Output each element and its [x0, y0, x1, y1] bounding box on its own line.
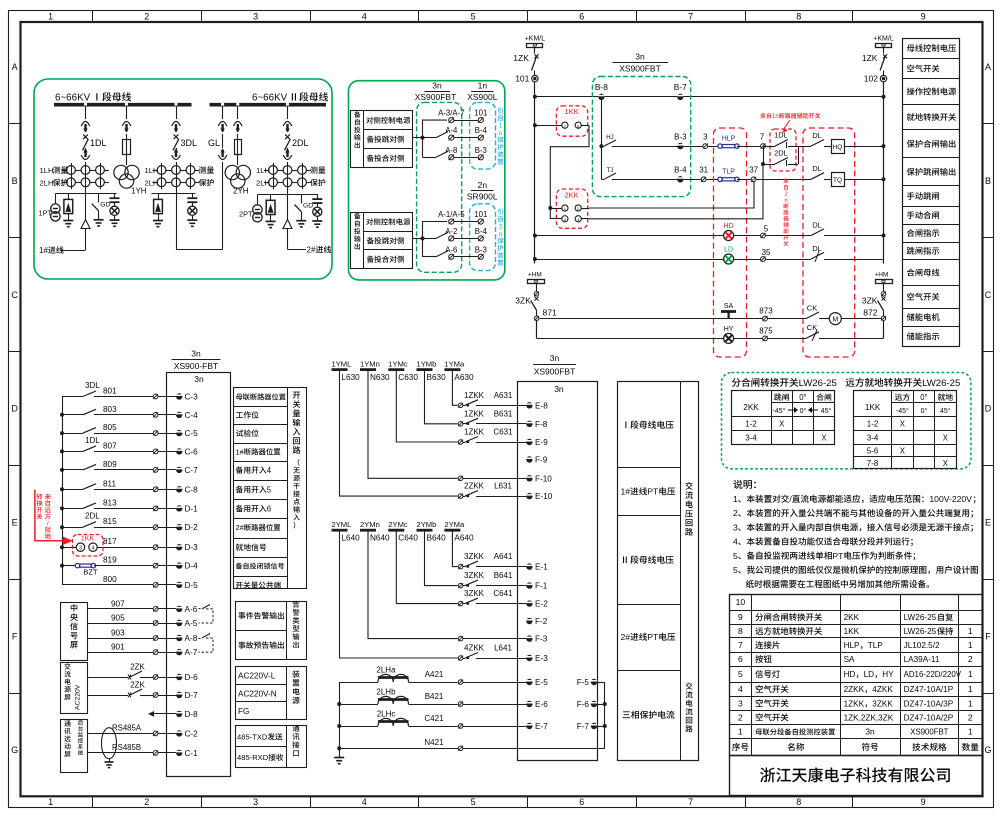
svg-text:B-7: B-7 — [674, 82, 687, 92]
svg-text:F-2: F-2 — [535, 617, 548, 626]
wire RS485A to C-2 — [87, 730, 182, 736]
PT bar 2YMn — [360, 529, 376, 532]
label 3n XS900FBT group header — [425, 91, 450, 93]
relay contact HJ and B-8 drop — [599, 97, 680, 180]
note line 2 — [733, 508, 973, 518]
terminal A-6 — [449, 254, 478, 259]
svg-text:TQ: TQ — [833, 177, 842, 184]
svg-text:M: M — [832, 317, 838, 324]
svg-text:XS900-FBT: XS900-FBT — [174, 361, 218, 371]
wire 805 to terminal C-5 — [60, 428, 182, 437]
parts list table — [729, 594, 982, 755]
svg-text:2: 2 — [738, 713, 743, 723]
svg-text:5: 5 — [267, 485, 272, 494]
PT bar 1YMb — [417, 368, 433, 371]
svg-text:XS900L: XS900L — [467, 92, 498, 102]
svg-text:1-2: 1-2 — [867, 420, 879, 429]
svg-text:1LH: 1LH — [256, 166, 270, 175]
svg-text:1#: 1# — [621, 487, 631, 497]
svg-text:0°: 0° — [921, 407, 928, 415]
wire 809 to terminal C-7 — [60, 464, 182, 473]
svg-text:0°: 0° — [800, 407, 807, 415]
current transformer 2LHa — [339, 674, 532, 685]
lamp LD row wire — [533, 257, 724, 261]
svg-text:BZT: BZT — [83, 568, 98, 577]
terminal strip 3n XS900FBT middle outline — [518, 382, 598, 761]
breaker 3DL — [173, 134, 179, 150]
svg-text:2: 2 — [733, 508, 738, 518]
svg-text:F-7: F-7 — [577, 722, 590, 731]
svg-text:2DL: 2DL — [292, 138, 309, 148]
breaker 1ZK left — [532, 47, 539, 75]
PT bar 1YMc — [388, 368, 404, 371]
contact DL HD row — [811, 229, 886, 238]
svg-text:C: C — [11, 290, 18, 300]
feeder 2YH wire — [236, 103, 239, 165]
svg-text:5: 5 — [471, 11, 476, 21]
svg-text:2: 2 — [784, 192, 787, 198]
svg-text:DZ47-10A/3P: DZ47-10A/3P — [904, 699, 954, 708]
svg-text:6: 6 — [579, 797, 584, 807]
red dashed box output contacts — [803, 128, 855, 357]
svg-text:2LH: 2LH — [145, 179, 159, 188]
svg-text:485-TXD: 485-TXD — [237, 733, 268, 742]
svg-text:8: 8 — [796, 11, 801, 21]
svg-text:AD16-22D/220V: AD16-22D/220V — [904, 670, 962, 679]
input label 备自投闭锁信号 — [236, 563, 284, 570]
capacitor and lamp feeder1 — [110, 194, 120, 227]
wire B641 row F-1 — [425, 531, 533, 589]
svg-text:3n: 3n — [865, 727, 875, 737]
svg-text:4: 4 — [362, 797, 367, 807]
svg-text:D-1: D-1 — [185, 504, 199, 513]
svg-text:CK: CK — [807, 323, 817, 332]
green dashed box XS900FBT — [592, 77, 690, 197]
legend 合闸母线 — [907, 269, 940, 277]
svg-text:0°: 0° — [920, 393, 927, 402]
svg-text:2: 2 — [144, 797, 149, 807]
relay contact TJ — [601, 173, 680, 180]
svg-text:5: 5 — [733, 551, 738, 561]
svg-text:3n: 3n — [194, 374, 204, 384]
surge triangle feeder2 — [283, 220, 292, 229]
contact DL close HQ row — [798, 140, 831, 147]
svg-text:2ZK: 2ZK — [130, 681, 145, 690]
surge triangle feeder1 — [81, 220, 90, 229]
svg-text:1ZK: 1ZK — [862, 53, 878, 63]
svg-text:903: 903 — [111, 629, 125, 638]
feeder 1DL wire — [84, 103, 87, 194]
coil HQ — [832, 140, 886, 154]
F terminals right vertical — [603, 682, 607, 748]
blue dashed terminal group 2n — [470, 204, 496, 271]
svg-text:5: 5 — [733, 565, 738, 575]
legend 储能指示 — [907, 332, 940, 340]
svg-text:E-3: E-3 — [535, 654, 548, 663]
svg-text:3n: 3n — [635, 52, 645, 62]
fuse 2YH — [235, 140, 242, 155]
bus II 6~66KV — [210, 103, 327, 107]
blue dashed terminal group 1n — [470, 102, 496, 169]
feeder 3DL wire — [174, 103, 177, 194]
svg-text:F-8: F-8 — [535, 420, 548, 429]
svg-text:5: 5 — [738, 669, 743, 679]
note from remote-local switch — [45, 494, 51, 539]
bus I 6~66KV — [54, 103, 192, 107]
svg-text:F-3: F-3 — [535, 635, 548, 644]
svg-text:1YH: 1YH — [131, 187, 147, 196]
svg-text:B630: B630 — [427, 373, 447, 382]
svg-text:2YMc: 2YMc — [388, 520, 408, 529]
terminal 101 side 1n — [478, 117, 483, 122]
svg-text:E-6: E-6 — [535, 700, 548, 709]
svg-text:GD: GD — [303, 203, 313, 210]
svg-text:1KK: 1KK — [844, 627, 860, 636]
input label 备用开入5 — [236, 485, 272, 494]
svg-text:E-1: E-1 — [535, 563, 548, 572]
title switch table 1KK — [846, 378, 961, 389]
svg-text:LW26-25: LW26-25 — [904, 613, 937, 622]
svg-text:-45°: -45° — [773, 407, 786, 415]
svg-text:C-3: C-3 — [185, 393, 199, 402]
svg-text:PT: PT — [832, 551, 844, 561]
svg-text:F-9: F-9 — [535, 456, 548, 465]
svg-text:RS485A: RS485A — [112, 724, 142, 733]
svg-text:LA39A-11: LA39A-11 — [904, 655, 940, 664]
title switch table 2KK — [732, 378, 837, 389]
svg-text:9: 9 — [921, 797, 926, 807]
aux contact 2DL — [761, 146, 799, 166]
label 1# PT voltage — [621, 487, 676, 497]
svg-text:N640: N640 — [370, 534, 390, 543]
svg-text:PT: PT — [647, 487, 659, 497]
svg-text:B641: B641 — [494, 571, 513, 580]
label bus I voltage — [625, 422, 626, 428]
svg-text:2KK: 2KK — [844, 613, 860, 622]
svg-text:A421: A421 — [425, 670, 444, 679]
legend 跳闸指示 — [907, 247, 939, 255]
svg-text:9: 9 — [921, 11, 926, 21]
wire L641 row E-3 — [340, 531, 533, 661]
svg-text:2YMn: 2YMn — [360, 520, 380, 529]
svg-text:801: 801 — [103, 387, 117, 396]
parts row 5 — [738, 669, 743, 679]
svg-text:F: F — [985, 631, 991, 641]
breaker 3ZK right — [878, 284, 886, 321]
PT bar 1YML — [332, 368, 348, 371]
motor rung wire — [537, 319, 725, 321]
svg-text:3ZKK: 3ZKK — [872, 699, 893, 708]
PT bar 2YMa — [444, 529, 460, 532]
svg-text:2KK: 2KK — [565, 191, 579, 200]
svg-text:1PT: 1PT — [39, 209, 53, 218]
svg-text:3n: 3n — [432, 81, 442, 91]
legend 保护合闸输出 — [907, 140, 956, 148]
svg-text:DZ47-10A/2P: DZ47-10A/2P — [904, 714, 954, 723]
switch table 2KK — [731, 390, 834, 444]
svg-text:5: 5 — [471, 797, 476, 807]
legend 操作控制电源 — [907, 87, 956, 95]
svg-text:B-3: B-3 — [475, 245, 487, 254]
svg-text:2: 2 — [968, 654, 973, 664]
svg-text:4: 4 — [92, 545, 95, 551]
note line 1 — [733, 494, 975, 504]
label bus II voltage — [623, 557, 627, 563]
svg-text:1DL: 1DL — [774, 131, 788, 140]
signal wire 903 to A-8 — [87, 635, 182, 641]
connector plate TLP — [718, 177, 739, 181]
AC wire 2ZK to D-6 — [87, 671, 182, 680]
primary one-line diagram box — [34, 79, 332, 279]
svg-text:7: 7 — [688, 11, 693, 21]
wire RS485B to C-1 — [87, 750, 182, 756]
wire 813 to terminal D-1 — [60, 503, 182, 512]
disconnect GD feeder1 — [92, 194, 104, 227]
svg-text:A631: A631 — [494, 391, 513, 400]
voltage circuit label table — [617, 381, 698, 760]
terminal D-8 ground — [148, 711, 182, 717]
PT bar 2YML — [332, 529, 348, 532]
svg-text:G: G — [985, 745, 992, 755]
svg-text:LW26-25: LW26-25 — [922, 378, 960, 389]
signal wire 905 to A-5 — [87, 620, 182, 626]
feeder GL wire — [221, 103, 224, 250]
svg-text:10: 10 — [736, 597, 746, 607]
terminal A-8 — [449, 155, 478, 160]
svg-text:1#: 1# — [236, 447, 245, 456]
svg-text:1: 1 — [968, 698, 973, 708]
svg-text:E-8: E-8 — [535, 401, 548, 410]
svg-text:1: 1 — [48, 797, 53, 807]
svg-text:813: 813 — [103, 498, 117, 507]
switch 1KK contacts — [533, 122, 589, 128]
svg-text:A-5: A-5 — [185, 619, 198, 628]
svg-text:1DL: 1DL — [85, 436, 100, 445]
svg-text:3n: 3n — [554, 384, 564, 394]
wire 817 to terminal D-3 — [60, 543, 182, 551]
node 101 — [532, 75, 538, 81]
wire N421 — [339, 746, 605, 751]
svg-text:E: E — [12, 518, 18, 528]
svg-text:A-8: A-8 — [445, 146, 457, 155]
table output group 2 — [351, 212, 413, 268]
svg-text:A-2: A-2 — [445, 227, 457, 236]
parts row 6 — [738, 654, 743, 664]
capacitor and lamp feeder3 — [187, 194, 197, 227]
drawout symbol lower GL — [218, 149, 227, 160]
wire C641 row E-2 — [396, 531, 532, 607]
svg-text:1-2: 1-2 — [745, 420, 757, 429]
input common bus — [62, 397, 64, 585]
svg-text:/: / — [47, 520, 49, 527]
svg-text:4: 4 — [362, 11, 367, 21]
parts row 4 — [738, 684, 743, 694]
svg-text:1YMn: 1YMn — [360, 360, 380, 369]
svg-text:1ZKK: 1ZKK — [844, 699, 865, 708]
contact wiring group 2n — [413, 222, 448, 257]
terminal B-4 side 1n — [478, 135, 483, 140]
svg-text:1: 1 — [968, 640, 973, 650]
svg-text:A-6: A-6 — [445, 245, 457, 254]
parts row 序号 — [732, 743, 748, 751]
svg-text:E: E — [985, 518, 991, 528]
svg-text:905: 905 — [111, 614, 125, 623]
note from 2n protection — [497, 209, 503, 266]
svg-text:B-3: B-3 — [674, 133, 687, 142]
terminal B-4 — [677, 176, 683, 182]
wire 2YMN row F-3 — [368, 531, 533, 642]
svg-text:HLP: HLP — [722, 136, 736, 143]
svg-text:8: 8 — [738, 626, 743, 636]
svg-text:0°: 0° — [799, 393, 806, 402]
wire to 1# incoming — [60, 194, 86, 251]
svg-text:2: 2 — [144, 11, 149, 21]
svg-text:B-8: B-8 — [595, 82, 608, 92]
feeder 3 lateral bus — [152, 193, 196, 195]
svg-text:2YH: 2YH — [233, 187, 249, 196]
svg-text:C-1: C-1 — [185, 749, 199, 758]
twisted pair ellipse — [102, 728, 117, 768]
svg-text:HD: HD — [724, 223, 734, 230]
fuse +HM left — [528, 280, 545, 284]
svg-text:A: A — [12, 62, 18, 72]
company name box — [730, 756, 983, 796]
svg-text:1: 1 — [968, 684, 973, 694]
wire B631 row F-8 — [425, 371, 533, 427]
lamp HD — [724, 231, 734, 241]
voltage transformer 1YH — [114, 165, 139, 188]
wire B-3 to HLP — [683, 144, 720, 149]
svg-text:3ZKK: 3ZKK — [464, 552, 485, 561]
svg-text:AC220V-N: AC220V-N — [238, 690, 277, 699]
svg-text:102: 102 — [864, 74, 878, 84]
svg-text:4: 4 — [738, 684, 743, 694]
svg-text:X: X — [821, 434, 827, 443]
label 3n XS900FBT ladder — [612, 62, 668, 64]
svg-text:X: X — [779, 420, 785, 429]
svg-text:A-3/A-7: A-3/A-7 — [438, 109, 464, 118]
svg-text:n: n — [499, 130, 503, 137]
svg-text:L631: L631 — [494, 482, 512, 491]
svg-text:N421: N421 — [424, 738, 444, 747]
drawout symbol lower 3DL — [172, 149, 181, 160]
svg-text:803: 803 — [103, 405, 117, 414]
svg-text:805: 805 — [103, 423, 117, 432]
company name — [760, 767, 950, 782]
svg-text:45°: 45° — [940, 407, 951, 415]
input label 1#断路器位置 — [236, 447, 281, 456]
svg-text:35: 35 — [762, 248, 771, 257]
wire SA to CK — [734, 316, 806, 321]
svg-text:GL: GL — [208, 138, 220, 148]
terminal B-3 — [677, 143, 683, 149]
wire C631 row E-9 — [396, 371, 532, 446]
svg-text:800: 800 — [103, 575, 117, 584]
wire HLP to node7 — [737, 144, 770, 149]
drawout symbol upper 1DL — [81, 122, 90, 133]
vertical label switch input circuit — [293, 392, 301, 454]
svg-text:1KK: 1KK — [865, 403, 881, 412]
drawout symbol lower 1DL — [81, 149, 90, 160]
svg-text:TLP: TLP — [722, 169, 735, 176]
switch 2KK contacts — [548, 205, 589, 222]
svg-text:F: F — [12, 631, 18, 641]
red dashed box 1DL 2DL aux — [770, 129, 796, 171]
svg-text:F-10: F-10 — [535, 474, 552, 483]
svg-text:n: n — [784, 198, 787, 204]
terminal B-3 side 1n — [478, 155, 483, 160]
breaker 1DL — [83, 134, 89, 150]
svg-text:n: n — [499, 231, 503, 238]
output contact A-6 A-5 dashed — [199, 605, 214, 624]
top rung wire — [535, 95, 886, 99]
svg-text:1: 1 — [48, 11, 53, 21]
svg-text:TLP: TLP — [868, 641, 884, 650]
svg-text:1YMc: 1YMc — [388, 360, 408, 369]
wire 811 to terminal C-8 — [60, 484, 182, 493]
terminal A-3/A-7 — [449, 117, 478, 122]
signal wire 907 to A-6 — [87, 606, 182, 612]
svg-text:1ZK,2ZK,3ZK: 1ZK,2ZK,3ZK — [844, 714, 894, 723]
svg-text:N630: N630 — [370, 373, 390, 382]
breaker 2DL — [285, 134, 291, 150]
svg-text:A-1/A-5: A-1/A-5 — [438, 210, 465, 219]
svg-text:A-4: A-4 — [445, 126, 458, 135]
switch table 1KK — [854, 390, 957, 469]
svg-text:3: 3 — [738, 698, 743, 708]
input label 试验位 — [236, 429, 259, 436]
svg-text:2DL: 2DL — [774, 149, 788, 158]
drawout symbol 2YH — [234, 122, 243, 133]
CT left common bus — [337, 682, 341, 750]
svg-text:C-2: C-2 — [185, 729, 199, 738]
aux contact 1DL — [763, 140, 798, 149]
wire L631 row E-10 — [340, 371, 533, 500]
CT 2LH feeder3 — [153, 175, 200, 189]
svg-text:31: 31 — [699, 166, 708, 175]
svg-text:100V-220V: 100V-220V — [929, 494, 972, 504]
terminal B-7 — [677, 94, 683, 100]
svg-text:X: X — [943, 459, 949, 468]
terminal B-4 side 2n — [478, 236, 483, 241]
svg-text:FG: FG — [238, 707, 249, 716]
svg-text:AC220V: AC220V — [75, 684, 82, 710]
PT 2PT — [253, 194, 262, 222]
svg-text:DL: DL — [812, 244, 822, 253]
red dashed box 1KK input — [73, 535, 104, 557]
motor M — [829, 313, 883, 325]
svg-text:X: X — [900, 420, 906, 429]
lamp HD row wire — [533, 234, 724, 238]
terminal strip 3n XS900-FBT outline — [167, 373, 231, 777]
svg-text:HLP: HLP — [844, 641, 860, 650]
wire to 2# incoming — [288, 194, 307, 249]
svg-text:2n: 2n — [478, 180, 488, 190]
svg-text:3: 3 — [79, 545, 82, 551]
note line 6 — [733, 565, 978, 575]
central signal panel box — [61, 603, 88, 661]
svg-text:3ZK: 3ZK — [862, 296, 878, 306]
left rail fuse +KM/L — [527, 44, 543, 48]
drawout symbol lower 2DL — [283, 149, 292, 160]
drawout symbol upper GL — [218, 122, 227, 133]
terminal F-9 — [526, 456, 532, 462]
legend 手动合闸 — [907, 211, 939, 219]
CT bus ground — [334, 748, 344, 763]
auto-transfer output box — [349, 81, 505, 280]
svg-text:+KM/L: +KM/L — [873, 36, 894, 43]
terminal B-3 side 2n — [478, 254, 483, 259]
